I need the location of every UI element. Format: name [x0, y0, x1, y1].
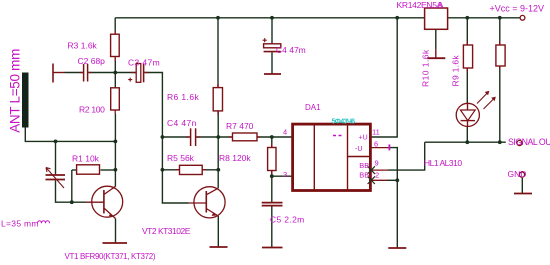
- svg-text:C4 47n: C4 47n: [167, 118, 197, 128]
- svg-text:R2 100: R2 100: [79, 105, 105, 115]
- svg-text:+Vcc = 9-12V: +Vcc = 9-12V: [490, 3, 545, 13]
- svg-text:9: 9: [375, 159, 379, 168]
- svg-text:5Ф43Ч6: 5Ф43Ч6: [332, 117, 356, 126]
- svg-text:BB: BB: [359, 171, 369, 180]
- svg-text:+U: +U: [359, 135, 368, 142]
- svg-text:3: 3: [283, 170, 287, 179]
- svg-text:C3 47m: C3 47m: [128, 58, 160, 68]
- svg-text:VT1 BFR90(KT371, KT372): VT1 BFR90(KT371, KT372): [65, 252, 156, 261]
- svg-text:6: 6: [374, 139, 378, 148]
- svg-text:L=35 mm: L=35 mm: [1, 219, 39, 229]
- svg-text:R8 120k: R8 120k: [219, 153, 251, 163]
- svg-text:-U: -U: [355, 146, 362, 153]
- svg-text:R9 1.6k: R9 1.6k: [451, 55, 461, 87]
- svg-text:R10 1.6k: R10 1.6k: [421, 49, 431, 87]
- svg-text:11: 11: [372, 127, 380, 136]
- svg-text:4: 4: [283, 127, 287, 136]
- svg-text:HL1 AL310: HL1 AL310: [424, 158, 462, 168]
- svg-text:VT2 KT3102E: VT2 KT3102E: [142, 226, 191, 236]
- svg-text:C4 47m: C4 47m: [276, 45, 306, 55]
- svg-text:KR142EN5A: KR142EN5A: [397, 0, 443, 10]
- svg-text:R7 470: R7 470: [226, 121, 254, 131]
- svg-text:GND: GND: [508, 169, 527, 179]
- svg-text:SIGNAL OUT: SIGNAL OUT: [508, 137, 550, 147]
- svg-text:R6 1.6k: R6 1.6k: [167, 92, 199, 102]
- svg-text:BB: BB: [359, 161, 369, 170]
- svg-text:DA1: DA1: [305, 103, 321, 112]
- svg-text:C2 68p: C2 68p: [78, 56, 106, 66]
- svg-text:R3 1.6k: R3 1.6k: [68, 41, 98, 51]
- svg-text:A: A: [438, 0, 444, 10]
- svg-text:R5 56k: R5 56k: [167, 153, 195, 163]
- svg-text:C5 2.2m: C5 2.2m: [270, 214, 305, 224]
- svg-text:R1 10k: R1 10k: [72, 154, 100, 164]
- svg-text:2: 2: [375, 171, 379, 180]
- svg-text:ANT L=50 mm: ANT L=50 mm: [8, 49, 23, 133]
